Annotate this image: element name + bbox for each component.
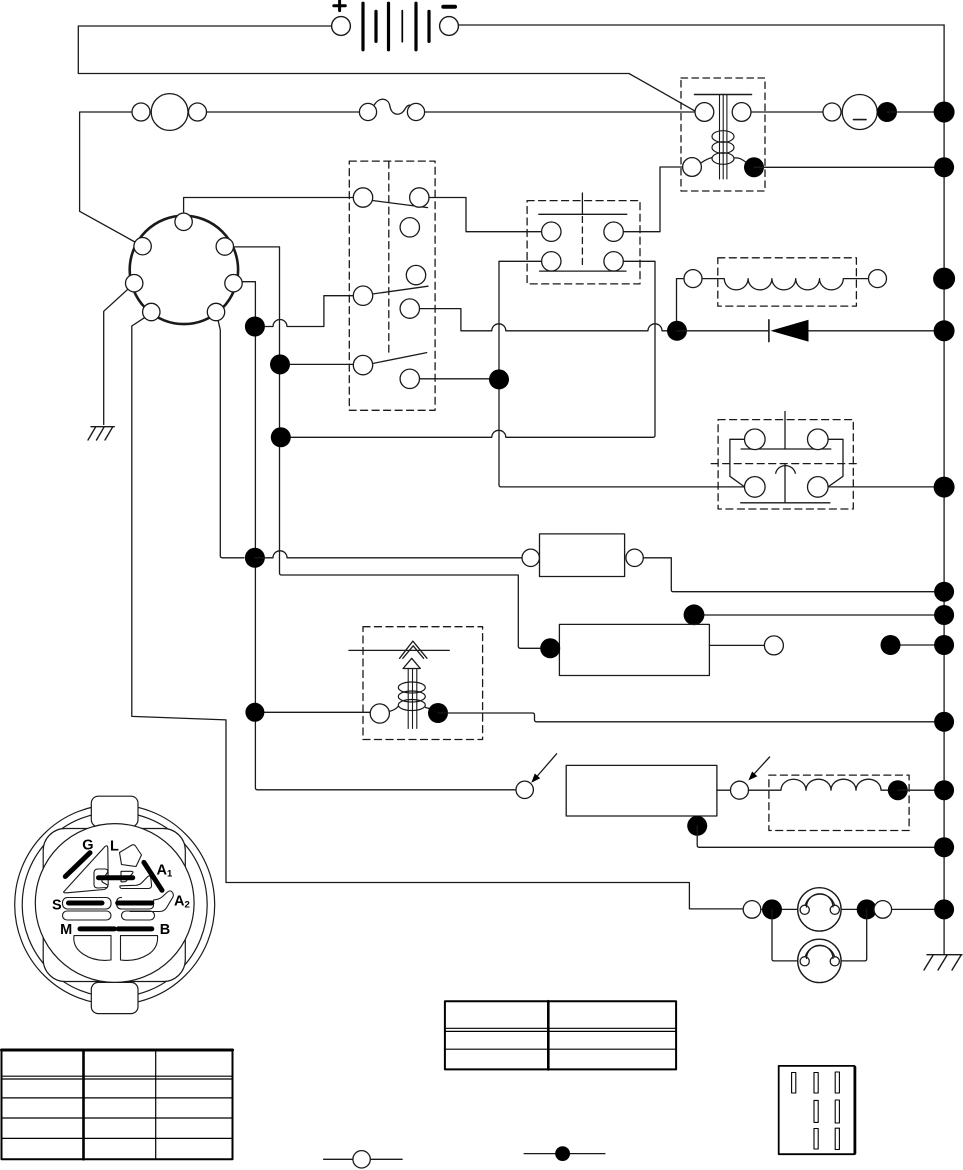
fuse F1 right terminal	[407, 103, 424, 120]
wire connector to lamp junction	[761, 908, 798, 910]
wire lamp parallel branch right	[841, 909, 867, 961]
alternator left terminal	[684, 270, 702, 288]
junction dot regulator top	[684, 604, 705, 625]
key switch cutout L pentagon	[120, 845, 142, 867]
spark plug gap bar	[349, 649, 449, 651]
starter solenoid K1 left contact	[695, 103, 714, 122]
wire clutch bottom-left down to seat switch	[499, 261, 744, 487]
interlock switch dashed enclosure	[349, 161, 435, 410]
seat switch bottom bar	[741, 502, 830, 504]
wire rail to regulator top	[694, 615, 944, 624]
junction dot rail at coil return row	[934, 157, 954, 177]
connector terminal left	[126, 275, 143, 292]
junction dot rail at resistor row	[934, 582, 954, 602]
wire battery positive to frame left and solenoid stud	[78, 26, 695, 111]
junction dot lamp left	[762, 899, 782, 919]
interlock pole 3 blade	[373, 353, 427, 364]
svg-text:G: G	[82, 838, 93, 854]
starter solenoid K1 core	[720, 95, 727, 180]
key switch terminal bar A1	[144, 862, 162, 890]
wire solenoid coil to clutch switch	[623, 167, 682, 232]
seat switch right bracket	[828, 439, 843, 486]
clutch brake switch dashed enclosure	[527, 201, 640, 284]
seat switch top bar	[741, 448, 831, 450]
junction dot rail at engine ground row	[934, 837, 954, 857]
legend symbol junction dot	[524, 1146, 605, 1161]
headlamp L2 filament arcs	[805, 945, 834, 958]
starter motor terminal circle	[823, 103, 841, 121]
junction dot rail at diode row	[934, 320, 955, 341]
headlamp L1 filament terminals	[800, 905, 809, 914]
junction dot engine module ground	[687, 816, 707, 836]
wire lamp parallel branch left	[772, 909, 798, 961]
junction dot rail at magneto row	[934, 780, 954, 800]
wire junction to interlock pole2 with hop	[255, 296, 353, 327]
ignition coil core	[408, 669, 417, 729]
wire headlight return to rail	[892, 908, 945, 910]
wire junction to interlock pole3	[280, 363, 353, 365]
seat switch contact top-left	[745, 429, 766, 450]
seat switch plunger top	[784, 412, 786, 450]
starter motor M body	[842, 95, 877, 130]
wire fuse to solenoid stud	[425, 111, 695, 113]
seat switch left bracket	[730, 439, 745, 486]
junction dot charge circuit	[667, 321, 687, 341]
junction dot rail at ignition row	[934, 712, 954, 732]
junction dot solenoid coil return	[744, 157, 764, 177]
legend symbol open connector	[324, 1151, 403, 1168]
magneto dashed enclosure	[769, 775, 909, 830]
ammeter AM right terminal	[189, 103, 207, 121]
junction dot starter motor to rail	[877, 102, 897, 122]
wire resistor feed with hop	[255, 551, 522, 558]
interlock pole 1 lower contact	[400, 218, 419, 237]
engine harness module body	[566, 765, 717, 816]
key switch terminal bar S left	[69, 901, 103, 906]
wire battery negative to right rail	[458, 24, 944, 26]
interlock pole 2 common contact	[353, 286, 372, 305]
wire interlock pole2 out to charge junction with hops	[420, 309, 678, 331]
key switch cutout center right wing upper	[121, 871, 133, 882]
interlock pole 2 upper contact	[406, 265, 425, 284]
wire diode to rail	[809, 330, 945, 332]
headlamp L1 filament arcs	[805, 894, 834, 907]
junction dot rail at starter row	[934, 102, 955, 123]
interlock pole 1 blade	[372, 201, 427, 208]
seat switch actuator arc	[776, 466, 796, 474]
svg-text:L: L	[110, 839, 119, 855]
arrow pointer left connector	[537, 754, 557, 777]
regulator right terminal circle	[764, 636, 783, 655]
headlight return connector circle	[874, 901, 892, 919]
wire junction to ignition coil primary	[255, 711, 370, 713]
junction dot rail at alternator row	[933, 268, 955, 290]
junction dot key switch feed	[245, 317, 265, 337]
junction dot rail at regulator top row	[934, 605, 954, 625]
wire connector lower-right terminal down to resistor row	[218, 320, 244, 558]
ignition switch connector body	[130, 216, 238, 324]
battery BAT cell plates	[363, 3, 429, 50]
key switch cutout S row right with A2 flag	[117, 891, 174, 912]
diode D1 arrow	[771, 320, 809, 342]
battery BAT plus sign	[334, 1, 346, 11]
connector terminal lower-right	[207, 303, 224, 320]
junction dot interlock pole3 to seat feed	[489, 369, 509, 389]
wire connector lower-left terminal to headlight feed	[132, 317, 743, 909]
junction dot pole3 feed	[270, 354, 290, 374]
wire alternator left terminal down to charge junction	[677, 279, 685, 331]
ignition coil primary terminal	[370, 704, 389, 723]
headlamp L1 body	[798, 888, 841, 931]
seat switch plunger bottom	[784, 464, 786, 503]
headlamp L2 body	[798, 939, 841, 982]
key switch terminal bar G	[65, 853, 90, 877]
key switch cutout blank row left	[63, 911, 112, 920]
seat switch dashed enclosure	[718, 420, 853, 509]
wire resistor to rail	[643, 558, 944, 592]
spark plug chevrons	[400, 641, 427, 658]
alternator right terminal	[869, 270, 887, 288]
interlock pole 1 common contact	[353, 188, 372, 207]
alternator stator dashed enclosure	[718, 258, 857, 306]
key switch face top tab	[91, 796, 138, 827]
headlight feed connector circle	[743, 901, 761, 919]
wire solenoid coil return to rail	[754, 166, 944, 168]
junction dot ground stub	[881, 635, 901, 655]
key switch cutout center left bracket	[94, 869, 108, 888]
legend table middle	[445, 1001, 676, 1069]
ammeter AM left terminal	[132, 103, 150, 121]
key switch face bottom tab	[91, 982, 138, 1013]
arrow pointer right connector	[753, 757, 770, 776]
junction dot rail at ground stub row	[934, 635, 954, 655]
seat switch dashed mid line	[711, 463, 860, 465]
diode D1 cathode bar	[768, 320, 770, 342]
key switch terminal bar S right	[118, 901, 152, 906]
starter solenoid K1 top bar	[695, 94, 752, 96]
junction dot rail at headlight row	[934, 899, 954, 919]
seat switch contact bottom-right	[808, 477, 829, 498]
junction dot rail at seat row	[934, 477, 955, 498]
starter solenoid K1 right contact	[732, 103, 751, 122]
ammeter AM body	[151, 94, 188, 131]
starter motor minus mark	[854, 119, 867, 121]
wire engine module to ignition unit connector	[717, 789, 731, 791]
wire connector right terminal down chain to engine module	[243, 282, 516, 790]
interlock pole 1 upper contact	[410, 188, 429, 207]
wire regulator right terminal	[709, 644, 764, 646]
interlock switch inner dashed divider	[388, 161, 390, 353]
wire interlock pole1 to clutch switch	[429, 198, 542, 232]
wire color legend table left	[2, 1050, 233, 1160]
wire ammeter feed from ignition connector	[80, 112, 136, 243]
wire seat switch to rail	[828, 486, 944, 488]
key switch face inner circle	[35, 824, 194, 983]
ignition unit connector circle	[731, 781, 749, 799]
wire solenoid contact to starter motor terminal	[751, 111, 823, 113]
clutch switch inner dashed divider	[581, 217, 583, 267]
resistor right terminal	[626, 549, 643, 566]
connector terminal upper-right	[216, 238, 233, 255]
seat switch contact top-right	[808, 429, 829, 450]
wire charge junction to diode	[677, 330, 769, 332]
clutch switch contact top-right	[604, 222, 623, 241]
svg-text:B: B	[160, 922, 170, 938]
interlock pole 2 lower contact	[400, 299, 419, 318]
battery BAT minus sign	[443, 5, 455, 9]
clutch switch contact bottom-left	[542, 252, 561, 271]
wire engine module ground to rail	[697, 826, 944, 848]
junction dot ignition coil feed	[245, 703, 264, 722]
ignition coil dashed enclosure	[363, 627, 483, 740]
connector terminal top	[175, 213, 192, 230]
junction dot ignition coil output	[428, 703, 448, 723]
clutch switch contact top-left	[542, 222, 561, 241]
wire ground stub at rail	[891, 644, 945, 646]
starter solenoid K1 coil	[701, 131, 747, 165]
magneto winding coil	[749, 779, 888, 790]
resistor left terminal	[522, 549, 539, 566]
interlock pole 3 common contact	[353, 355, 372, 374]
wire starter motor to rail	[887, 111, 944, 113]
ground symbol right at rail bottom	[924, 955, 962, 970]
connector terminal right	[225, 275, 242, 292]
ground symbol left	[88, 427, 114, 440]
interlock pole 2 blade	[372, 286, 428, 294]
battery BAT negative terminal circle	[440, 17, 459, 36]
starter solenoid K1 coil terminal	[683, 158, 702, 177]
key switch terminal bar B	[118, 926, 152, 931]
ignition coil winding	[389, 682, 437, 712]
interlock pole 3 contact	[400, 369, 419, 388]
battery BAT positive terminal circle	[332, 17, 351, 36]
wire connector top terminal to interlock switch	[184, 198, 354, 214]
svg-text:M: M	[60, 922, 72, 938]
alternator winding coil	[702, 279, 868, 290]
resistor block body	[540, 534, 625, 577]
key switch cutout bottom right quarter	[121, 936, 158, 961]
wire clutch bottom-right down and left to kill junction with hop	[281, 261, 655, 437]
key switch cutout bottom left quarter	[74, 936, 111, 961]
regulator module body	[559, 624, 709, 675]
key switch cutout S row left	[63, 898, 112, 910]
clutch switch bottom bar	[540, 270, 626, 272]
wire connector upper-right terminal to magneto kill vertical	[233, 247, 540, 648]
clutch switch contact bottom-right	[604, 252, 623, 271]
wire magneto to rail	[898, 789, 944, 791]
key switch cutout center right wing lower	[120, 876, 152, 889]
key switch cutout triangle left	[64, 846, 109, 893]
key switch face rounded square	[43, 829, 185, 982]
junction dot regulator left terminal	[540, 638, 560, 658]
wire right rail	[943, 25, 945, 955]
starter solenoid K1 dashed enclosure	[681, 78, 765, 191]
fuse F1 left terminal	[359, 103, 376, 120]
wire connector left terminal to ground	[104, 289, 128, 424]
headlamp L2 filament terminals	[800, 957, 809, 966]
connector terminal lower-left	[143, 303, 160, 320]
svg-text:S: S	[52, 897, 62, 913]
junction dot magneto kill branch	[271, 427, 291, 447]
seat switch contact bottom-left	[745, 477, 766, 498]
engine module left connector circle	[516, 781, 533, 798]
key switch cutout blank row right	[122, 911, 155, 920]
wire ignition coil output to rail	[438, 713, 944, 722]
junction dot magneto output	[888, 780, 908, 800]
wire ammeter to fuse	[207, 111, 360, 113]
spark plug electrode triangle	[403, 658, 420, 668]
key switch terminal bar L-center	[99, 875, 133, 880]
junction dot lamp right	[857, 899, 877, 919]
wire interlock pole3 out to seat junction	[420, 378, 500, 380]
key switch terminal bar M	[80, 926, 114, 931]
connector terminal upper-left	[134, 238, 151, 255]
clutch switch plunger	[581, 193, 583, 214]
fuse F1 element	[374, 99, 410, 114]
clutch switch top bar	[539, 213, 627, 215]
key switch face outer ring	[15, 805, 215, 1005]
connector pinout box bottom right	[779, 1066, 856, 1154]
junction dot resistor feed	[245, 548, 265, 568]
wire lamp L1 to right junction	[841, 908, 874, 910]
